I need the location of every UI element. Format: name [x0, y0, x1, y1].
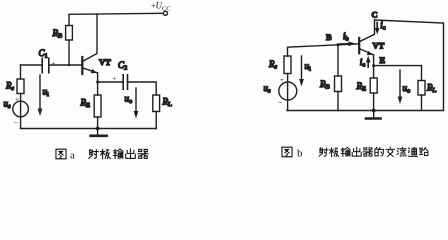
svg-text:+: + — [280, 76, 284, 84]
svg-text:VT: VT — [373, 41, 385, 51]
svg-text:E: E — [380, 55, 386, 65]
svg-text:Rs: Rs — [5, 81, 15, 93]
svg-text:uo: uo — [403, 83, 411, 95]
svg-text:B: B — [326, 32, 332, 42]
svg-text:VT: VT — [99, 57, 111, 67]
node: rail junction at RE — [96, 127, 100, 131]
svg-text:RE: RE — [356, 81, 367, 93]
svg-text:C1: C1 — [39, 48, 48, 60]
svg-text:RB: RB — [52, 28, 64, 40]
wire: Rb bottom to base — [68, 40, 70, 65]
svg-text:RE: RE — [80, 98, 91, 110]
source us circle (b) — [279, 82, 297, 100]
arrow ic (collector current) — [375, 23, 380, 35]
wire: base wire right segment — [49, 64, 82, 66]
wire: RB to rail (b) — [337, 92, 339, 111]
svg-text:+: + — [52, 60, 56, 68]
resistor Rs (b) — [284, 56, 291, 74]
svg-text:C: C — [372, 10, 378, 20]
wire: C2 to RL — [128, 82, 157, 95]
resistor RB (b) — [335, 76, 342, 92]
wire: emitter junction right to RL (b) — [374, 66, 422, 81]
transistor VT emitter with arrow — [82, 68, 97, 95]
svg-text:uo: uo — [125, 94, 133, 106]
transistor VT base bar — [81, 57, 83, 74]
source us circle — [13, 101, 29, 117]
svg-text:Rs: Rs — [268, 59, 278, 71]
wire: RB tap to body — [337, 45, 339, 76]
caption a: 图 a 射极输出器 — [56, 149, 148, 162]
ground a — [91, 129, 107, 136]
svg-text:+: + — [15, 96, 19, 104]
capacitor C2 — [123, 75, 127, 89]
svg-text:ui: ui — [43, 87, 50, 99]
node: rail junction at RE (b) — [372, 109, 376, 113]
wire: Rb top — [68, 14, 70, 25]
svg-text:ic: ic — [380, 20, 386, 32]
wire: Rs through source to rail (b) — [287, 74, 289, 111]
wire: Rs top corner — [20, 65, 22, 79]
svg-text:RL: RL — [162, 97, 173, 109]
transistor VT (b) collector — [359, 20, 374, 42]
wire: base wire left segment — [21, 64, 43, 66]
arrow ie (emitter current) — [366, 56, 371, 67]
node: base junction dot — [68, 64, 70, 66]
wire: Rs through source to bottom rail — [20, 94, 22, 129]
svg-text:a: a — [70, 150, 75, 162]
wire: RL to rail — [155, 112, 157, 129]
transistor VT collector — [82, 14, 97, 62]
wire: collector top to right edge — [375, 20, 444, 111]
ground b — [366, 111, 381, 119]
svg-text:+: + — [113, 75, 117, 83]
resistor RL — [153, 95, 160, 112]
wire: RE to rail (b) — [373, 93, 375, 111]
transistor VT (b) base bar — [358, 38, 360, 53]
svg-text:ie: ie — [360, 57, 366, 69]
wire: bottom rail a — [21, 128, 157, 130]
svg-text:RL: RL — [426, 83, 437, 95]
wire: RE to rail — [97, 117, 99, 129]
svg-text:ui: ui — [305, 61, 312, 73]
wire: top supply rail — [69, 13, 163, 14]
arrow ib (base current) — [340, 42, 356, 47]
wire: RL to rail (b) — [421, 95, 423, 111]
terminal +Ucc — [163, 11, 167, 15]
svg-text:+UCC: +UCC — [151, 1, 171, 13]
node: emitter junction (b) — [372, 64, 375, 67]
svg-text:C2: C2 — [118, 60, 127, 72]
svg-text:ib: ib — [343, 31, 349, 43]
arrow uo (b) — [398, 70, 403, 104]
wire: source top corner to base — [288, 44, 360, 56]
svg-text:RB: RB — [319, 79, 331, 91]
caption b: 图 b 射极输出器的交流通路 — [282, 147, 428, 159]
resistor RE (b) — [370, 78, 377, 93]
arrow ui (b) — [299, 56, 304, 87]
wire: bottom rail b — [287, 110, 444, 112]
capacitor C1 — [42, 58, 49, 72]
node: emitter junction — [96, 81, 99, 84]
resistor RE — [94, 95, 101, 117]
node B dot — [337, 43, 340, 46]
arrow uo (output voltage) — [134, 88, 139, 119]
svg-text:us: us — [4, 99, 12, 111]
svg-text:−: − — [278, 98, 283, 107]
transistor VT (b) emitter with arrow — [359, 49, 373, 79]
resistor RB — [66, 26, 73, 41]
svg-text:us: us — [264, 83, 272, 95]
resistor RL (b) — [418, 81, 425, 96]
wire: emitter to C2 — [98, 81, 123, 83]
arrow ui (input voltage) — [38, 75, 43, 116]
svg-text:−: − — [14, 119, 19, 128]
svg-text:b: b — [297, 148, 303, 160]
resistor RS — [17, 79, 24, 94]
